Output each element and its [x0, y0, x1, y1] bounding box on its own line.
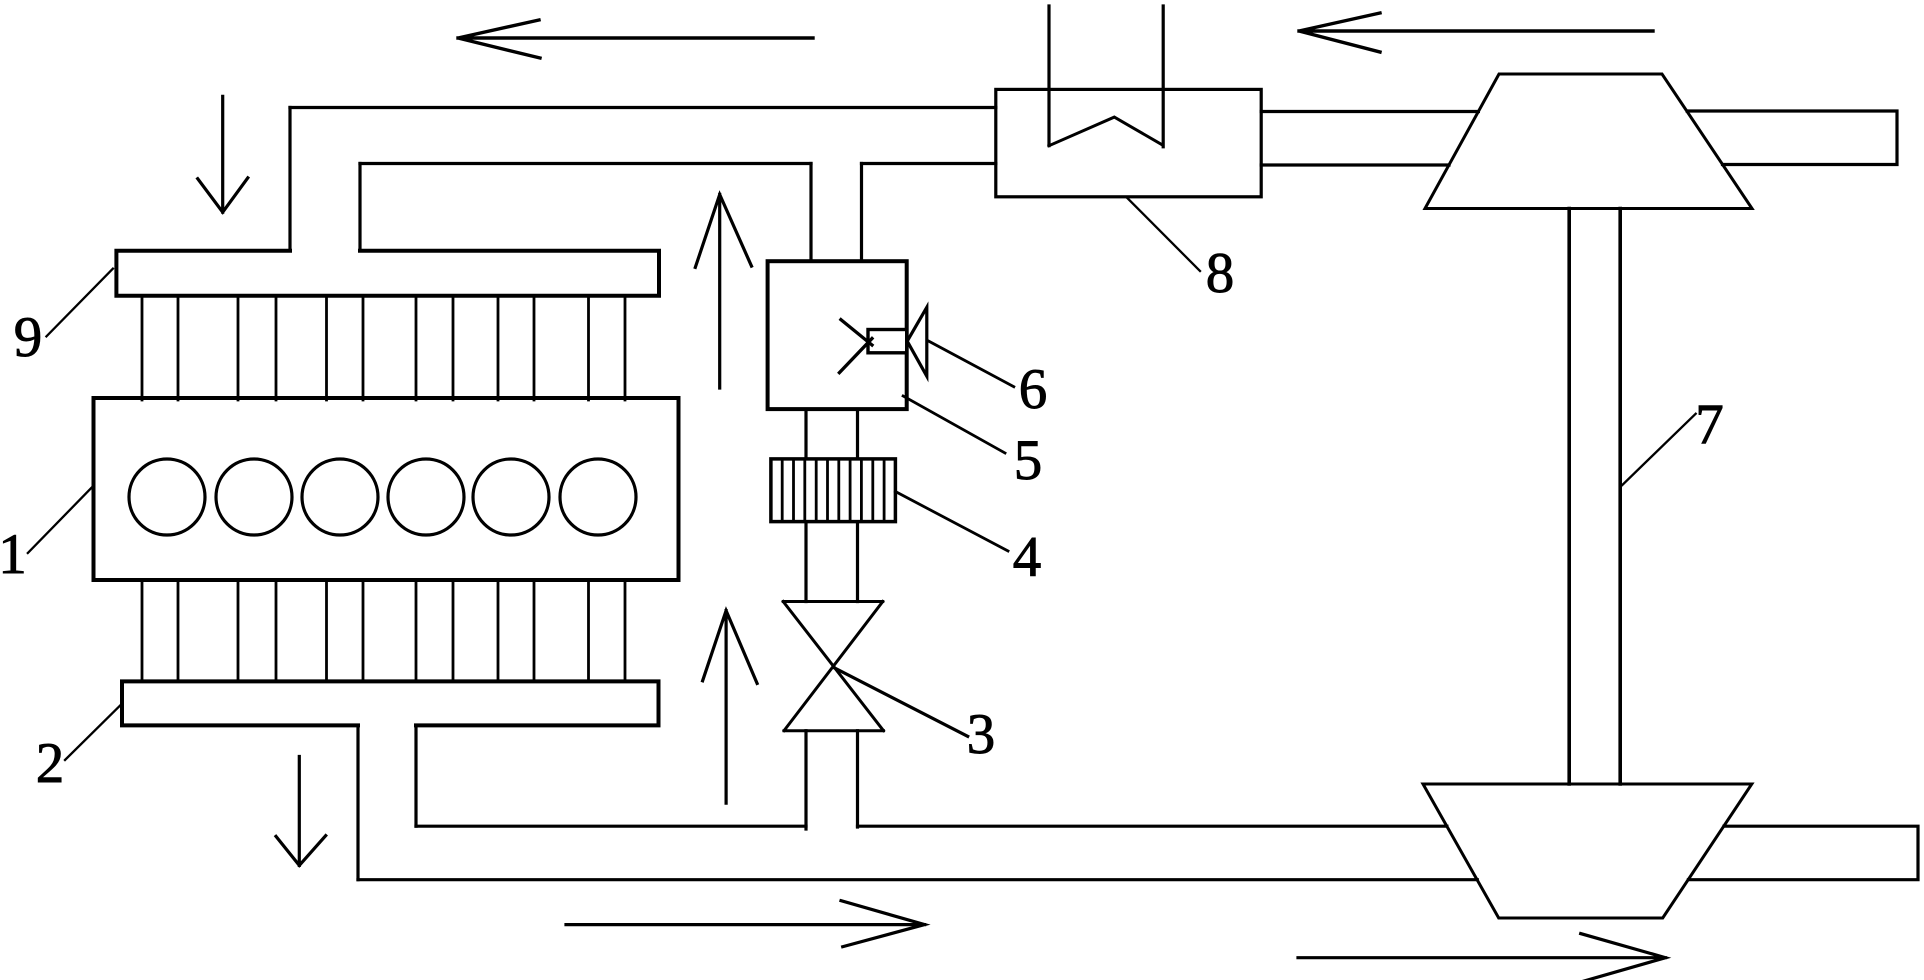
intake runners: [142, 296, 625, 400]
intercooler 8 box: [996, 89, 1261, 196]
intake feed pipe elbow: [290, 108, 360, 251]
exhaust pipe lower wall: [358, 878, 1477, 881]
exhaust runners: [142, 580, 625, 681]
svg-text:3: 3: [967, 703, 996, 766]
exhaust outlet duct inner wall: [414, 725, 417, 826]
compressor housing: [1425, 74, 1752, 209]
flow arrow down from exhaust: [276, 757, 326, 866]
exhaust pipe upper wall: [416, 825, 1447, 828]
charge air pipe upper wall: [290, 106, 996, 109]
valve 6 trumpet: [907, 307, 927, 376]
leader line 1: [28, 485, 94, 553]
flow arrow up middle upper: [695, 195, 751, 389]
leader line 9: [46, 269, 113, 337]
flow arrow top-right: [1299, 13, 1653, 52]
flow arrow top-left: [458, 20, 813, 58]
intercooler coolant pipe right: [1162, 6, 1165, 147]
filter 4 body: [771, 459, 896, 522]
cylinder bore 1: [129, 459, 205, 535]
filter 4 hatch lines: [782, 459, 884, 522]
flow arrow down into intake: [198, 96, 248, 212]
cylinder bore 4: [388, 459, 464, 535]
compressor outlet pipe to intercooler: [1261, 112, 1478, 166]
EGR riser pipe: [811, 164, 862, 262]
flow arrow bottom-middle: [566, 901, 925, 947]
exhaust manifold 2: [122, 681, 659, 725]
leader line 2: [65, 704, 121, 760]
pipe valve3 to exhaust duct: [806, 731, 858, 829]
cylinder bore 6: [560, 459, 636, 535]
engine block 1: [94, 398, 679, 580]
pipe filter4 to valve3: [806, 522, 858, 602]
intake manifold 9: [116, 251, 659, 296]
intercooler zigzag: [1049, 117, 1162, 146]
compressor inlet pipe: [1687, 111, 1897, 165]
svg-text:7: 7: [1695, 393, 1724, 456]
leader line 8: [1127, 197, 1201, 271]
exhaust outlet duct outer wall: [356, 725, 359, 879]
leader line 6: [929, 341, 1014, 387]
svg-text:1: 1: [0, 523, 27, 586]
turbine outlet pipe: [1688, 826, 1918, 880]
svg-text:6: 6: [1019, 358, 1048, 421]
svg-text:5: 5: [1014, 429, 1043, 492]
pipe box5 to filter4: [806, 409, 858, 459]
svg-text:2: 2: [36, 732, 65, 795]
cylinder bore 2: [216, 459, 292, 535]
cylinder bore 3: [302, 459, 378, 535]
turbo shaft 7: [1569, 209, 1620, 785]
svg-text:4: 4: [1013, 526, 1042, 589]
flow arrow bottom-right: [1298, 934, 1666, 980]
flow arrow up middle lower: [703, 611, 758, 804]
turbine housing: [1423, 784, 1752, 918]
valve 6 stem rectangle: [868, 330, 907, 353]
leader line 7: [1622, 414, 1696, 485]
svg-text:9: 9: [14, 306, 43, 369]
shutoff valve 3 bowtie: [783, 602, 883, 731]
intercooler coolant pipe left: [1047, 6, 1050, 146]
leader line 4: [895, 492, 1008, 552]
EGR valve box 5: [768, 261, 907, 409]
leader line 5: [903, 396, 1005, 453]
cylinder bore 5: [473, 459, 549, 535]
leader line 3: [834, 668, 968, 737]
charge air pipe lower wall: [360, 162, 996, 165]
valve 6 cross strokes: [839, 320, 872, 373]
svg-text:8: 8: [1206, 242, 1235, 305]
